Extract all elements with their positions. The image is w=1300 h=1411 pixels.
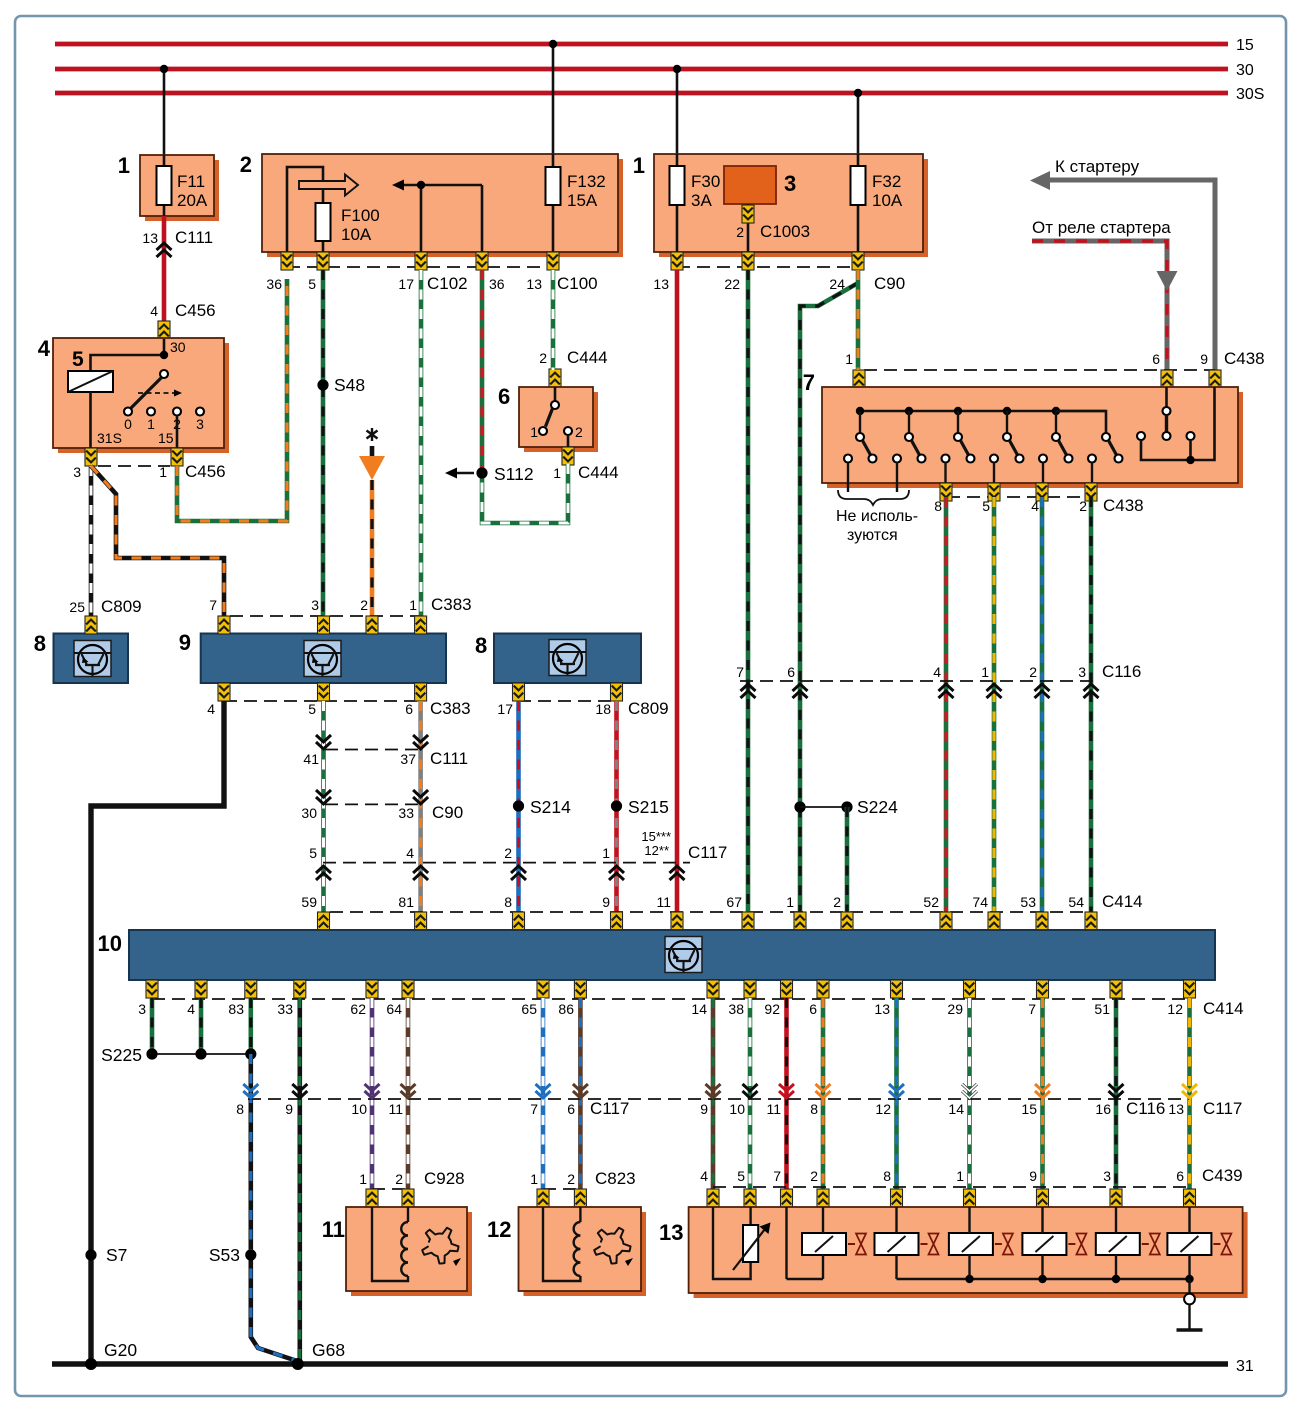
chevron bC116-16 — [1109, 1084, 1124, 1098]
svg-text:8: 8 — [504, 894, 512, 910]
svg-text:7: 7 — [803, 370, 815, 395]
connector C414b pin6 — [817, 980, 829, 998]
svg-text:1: 1 — [956, 1168, 964, 1184]
svg-text:8: 8 — [34, 631, 46, 656]
svg-text:2: 2 — [240, 152, 252, 177]
ignition switch 7 — [803, 370, 1243, 488]
svg-text:4: 4 — [207, 701, 215, 717]
svg-text:67: 67 — [726, 894, 742, 910]
node box4 pin30 — [160, 351, 168, 359]
connector C414b pin92 — [781, 980, 793, 998]
svg-text:S53: S53 — [209, 1245, 240, 1265]
connector C809 pin25 label — [69, 597, 141, 616]
svg-text:7: 7 — [773, 1168, 781, 1184]
chevron bC117-10 — [365, 1084, 380, 1098]
svg-text:1: 1 — [159, 464, 167, 480]
svg-text:2: 2 — [575, 424, 583, 440]
chevron C116-1 — [987, 684, 1002, 698]
svg-text:1: 1 — [118, 153, 130, 178]
connector C439 pin7 — [781, 1189, 793, 1207]
connector row C90 mid — [301, 803, 463, 822]
connector C102 pin36 — [281, 252, 293, 270]
svg-text:13: 13 — [1168, 1101, 1184, 1117]
ignition block 4 — [38, 336, 229, 453]
svg-text:C111: C111 — [430, 749, 468, 768]
box2 internal wire to pin17 — [420, 185, 423, 252]
connector C438 pin8 — [940, 483, 952, 501]
connector C414b pin3 — [146, 980, 158, 998]
svg-text:9: 9 — [1029, 1168, 1037, 1184]
svg-text:C456: C456 — [185, 462, 226, 481]
svg-text:1: 1 — [147, 416, 155, 432]
switch 6 — [498, 384, 598, 452]
svg-text:C90: C90 — [432, 803, 463, 822]
connector C414b pin62 — [366, 980, 378, 998]
connector C414b pin4 — [195, 980, 207, 998]
svg-text:38: 38 — [728, 1001, 744, 1017]
connector C102 pin17 — [415, 252, 427, 270]
connector C383b pin4 — [218, 683, 230, 701]
svg-text:5: 5 — [308, 701, 316, 717]
connector C439 pin2 — [817, 1189, 829, 1207]
chevron C117-4 — [413, 866, 428, 880]
chevron bC117-13 — [1182, 1084, 1197, 1098]
svg-text:К стартеру: К стартеру — [1055, 157, 1140, 176]
box7 key contact assembly — [1137, 387, 1215, 460]
connector C438 pin2 — [1085, 483, 1097, 501]
svg-text:6: 6 — [405, 701, 413, 717]
node injector bus 3 — [1112, 1275, 1120, 1283]
connector row C439 — [700, 1166, 1242, 1187]
svg-text:1: 1 — [530, 1171, 538, 1187]
fusebox 2 — [240, 152, 623, 257]
svg-text:14: 14 — [948, 1101, 964, 1117]
connector C438 pin6 — [1161, 370, 1173, 388]
connector C414 pin81 — [415, 912, 427, 930]
connector C414b pin51 — [1110, 980, 1122, 998]
chevron C111-37 — [413, 735, 428, 749]
connector row C438 bottom — [934, 496, 1143, 515]
connector C414b pin13 — [891, 980, 903, 998]
svg-text:13: 13 — [653, 276, 669, 292]
chevron bC116-11 — [779, 1084, 794, 1098]
svg-text:8: 8 — [883, 1168, 891, 1184]
svg-text:C444: C444 — [567, 348, 608, 367]
connector row C438 top — [845, 349, 1264, 370]
injector unit1 return — [787, 1207, 824, 1279]
svg-text:11: 11 — [766, 1101, 781, 1117]
chevron bC117-9 — [292, 1084, 307, 1098]
svg-text:83: 83 — [228, 1001, 244, 1017]
solenoid 12 coil circuit — [543, 1207, 580, 1281]
wire S225 to G68 (black/blue) — [251, 1054, 297, 1361]
svg-text:10: 10 — [729, 1101, 745, 1117]
svg-text:41: 41 — [303, 751, 319, 767]
svg-text:C438: C438 — [1103, 496, 1144, 515]
svg-text:2: 2 — [1029, 664, 1037, 680]
connector row C117 mid — [309, 829, 727, 863]
wire box1R-24 to ECU-1 (green/black) — [800, 283, 858, 914]
svg-text:16: 16 — [1095, 1101, 1111, 1117]
node bus15 tap F132 — [549, 40, 557, 48]
connector C383b pin5 — [318, 683, 330, 701]
svg-text:C102: C102 — [427, 274, 468, 293]
svg-text:7: 7 — [736, 664, 744, 680]
wire ECU-4 to S225 (green/black) — [199, 998, 204, 1054]
connector C383 pin2 — [366, 616, 378, 634]
wire box7-2 to ECU-54 (green/black) — [1089, 497, 1094, 914]
svg-text:S214: S214 — [530, 797, 571, 817]
connector C90 pin22 — [742, 252, 754, 270]
svg-text:18: 18 — [595, 701, 611, 717]
svg-text:92: 92 — [764, 1001, 780, 1017]
box2 internal arrow left — [392, 180, 482, 191]
connector C439 pin5 — [744, 1189, 756, 1207]
svg-text:12: 12 — [1167, 1001, 1183, 1017]
connector row C383 bottom — [207, 699, 470, 718]
wire ECU-38 (green/white) — [748, 998, 753, 1190]
svg-text:C414: C414 — [1102, 892, 1143, 911]
svg-text:4: 4 — [150, 303, 158, 319]
svg-text:4: 4 — [187, 1001, 195, 1017]
svg-text:52: 52 — [923, 894, 939, 910]
svg-text:6: 6 — [498, 384, 510, 409]
box7 switch blades — [856, 411, 1123, 463]
svg-text:3: 3 — [1078, 664, 1086, 680]
svg-text:C928: C928 — [424, 1169, 465, 1188]
connector C414b pin14 — [707, 980, 719, 998]
svg-text:F32: F32 — [872, 172, 901, 191]
svg-text:2: 2 — [395, 1171, 403, 1187]
ECU module 10 — [98, 930, 1215, 980]
bus line 15 — [55, 37, 1254, 54]
node S225 — [101, 1045, 256, 1065]
box4 coil to 31S — [91, 392, 122, 448]
svg-text:30: 30 — [301, 805, 317, 821]
svg-text:C90: C90 — [874, 274, 905, 293]
connector row C928 — [359, 1169, 464, 1189]
box2 internal wire pin36 to F100 — [287, 167, 323, 252]
module 8 right transistor icon — [549, 640, 586, 676]
svg-text:36: 36 — [266, 276, 282, 292]
connector C1003 pin 2 — [736, 204, 810, 252]
svg-text:3: 3 — [138, 1001, 146, 1017]
svg-text:1: 1 — [359, 1171, 367, 1187]
node S7 — [85, 1245, 127, 1265]
wire C456-3 to C809-25 (white/black) — [89, 466, 94, 618]
solenoid 11 cam icon — [422, 1228, 461, 1266]
svg-text:17: 17 — [398, 276, 414, 292]
chevron C90-33 — [413, 790, 428, 804]
svg-text:7: 7 — [530, 1101, 538, 1117]
chevron bC117-6 — [573, 1084, 588, 1098]
asterisk mark — [367, 428, 378, 441]
connector C100 pin13 — [547, 252, 559, 270]
chevron C116-3 — [1084, 684, 1099, 698]
svg-text:5: 5 — [309, 845, 317, 861]
injector common bus — [897, 1278, 1190, 1280]
box4 contact2 to pin15 — [158, 416, 177, 449]
svg-text:От реле стартера: От реле стартера — [1032, 218, 1171, 237]
svg-text:37: 37 — [400, 751, 416, 767]
svg-text:10: 10 — [98, 931, 122, 956]
svg-text:1: 1 — [602, 845, 610, 861]
svg-text:3: 3 — [1103, 1168, 1111, 1184]
svg-text:3: 3 — [784, 171, 796, 196]
chevron bC116-14 — [962, 1084, 977, 1098]
ECU transistor icon — [665, 937, 702, 973]
wire bus30 to fusebox1 — [163, 69, 166, 156]
svg-text:3: 3 — [311, 597, 319, 613]
svg-text:15A: 15A — [567, 191, 598, 210]
svg-text:15: 15 — [1236, 37, 1254, 54]
svg-text:14: 14 — [691, 1001, 707, 1017]
variable resistor unit — [713, 1207, 771, 1279]
wire box9-6 to ECU-81 (gray/orange) — [418, 701, 423, 914]
connector C414b pin83 — [245, 980, 257, 998]
connector C438 pin5 — [988, 483, 1000, 501]
brace not-used contacts — [836, 490, 918, 544]
chevron bC117-7 — [536, 1084, 551, 1098]
svg-text:зуются: зуются — [847, 527, 898, 544]
node box7 key contact junction — [1186, 456, 1194, 464]
wire box8R-17 to ECU-8 (blue/red) — [516, 701, 521, 914]
svg-text:4: 4 — [700, 1168, 708, 1184]
connector C90 pin24 — [852, 252, 864, 270]
connector C414b pin86 — [574, 980, 586, 998]
wire box2-36b to S112 (green/red) — [480, 270, 485, 473]
svg-text:S225: S225 — [101, 1045, 142, 1065]
svg-text:2: 2 — [810, 1168, 818, 1184]
svg-text:C383: C383 — [430, 699, 471, 718]
svg-text:11: 11 — [322, 1217, 345, 1242]
svg-text:5: 5 — [737, 1168, 745, 1184]
connector C928 pin1 — [366, 1189, 378, 1207]
connector C439 pin4 — [707, 1189, 719, 1207]
connector row C90 — [653, 267, 905, 293]
wire ECU-13 (green/blue) — [894, 998, 899, 1190]
svg-text:S215: S215 — [628, 797, 669, 817]
node bus30 tap F30 — [673, 65, 681, 73]
node S224 — [794, 797, 898, 817]
chevron C116-2 — [1035, 684, 1050, 698]
wire ECU-65 to C823-1 (blue/white) — [541, 998, 546, 1190]
connector row C117/C116 bottom — [236, 1099, 1242, 1118]
node S215 — [611, 797, 669, 817]
connector C414 pin8 — [513, 912, 525, 930]
svg-text:29: 29 — [947, 1001, 963, 1017]
svg-text:C444: C444 — [578, 463, 619, 482]
connector C809 pin18 — [611, 683, 623, 701]
connector C383 pin1 — [415, 616, 427, 634]
svg-text:C809: C809 — [101, 597, 142, 616]
node S214 — [513, 797, 571, 817]
chevron bC116-15 — [1035, 1084, 1050, 1098]
wire ECU-33 to G68 (black/green) — [297, 998, 302, 1362]
connector C414b pin64 — [402, 980, 414, 998]
connector row C102/C100 — [266, 267, 597, 293]
ground G68 — [292, 1340, 345, 1370]
box2 internal wire to pin36b — [481, 185, 484, 252]
svg-text:8: 8 — [236, 1101, 244, 1117]
connector C439 pin3 — [1110, 1189, 1122, 1207]
svg-text:6: 6 — [787, 664, 795, 680]
chevron C90-30 — [316, 790, 331, 804]
svg-text:1: 1 — [530, 424, 538, 440]
svg-text:9: 9 — [700, 1101, 708, 1117]
wire bus15 to F132 — [552, 44, 555, 155]
svg-text:S112: S112 — [494, 464, 534, 484]
connector C439 pin9 — [1037, 1189, 1049, 1207]
wire box2-17 to box9-1 (green/white) — [419, 270, 424, 618]
chevron bC116-10 — [743, 1084, 758, 1098]
svg-text:3: 3 — [196, 416, 204, 432]
connector C414 pin11 — [671, 912, 683, 930]
svg-text:2: 2 — [736, 224, 744, 240]
box4 pin30 wire — [164, 339, 186, 355]
connector C102 pin5 — [317, 252, 329, 270]
node bus30 tap F11 — [160, 65, 168, 73]
svg-text:S7: S7 — [106, 1245, 127, 1265]
module 8 left transistor icon — [74, 641, 111, 677]
svg-text:30: 30 — [1236, 62, 1254, 79]
connector C100 pin36 — [476, 252, 488, 270]
wire asterisk feed (orange/black) — [359, 446, 385, 618]
svg-text:81: 81 — [398, 894, 414, 910]
svg-text:25: 25 — [69, 599, 85, 615]
svg-text:8: 8 — [475, 633, 487, 658]
svg-text:22: 22 — [724, 276, 740, 292]
chevron C117-2 — [511, 866, 526, 880]
svg-text:12: 12 — [487, 1217, 511, 1242]
svg-text:86: 86 — [558, 1001, 574, 1017]
fusebox 1 (F11) — [118, 153, 219, 221]
injector units — [802, 1207, 1231, 1279]
wire ECU-14 (brown/green) — [711, 998, 716, 1190]
svg-text:C117: C117 — [688, 843, 727, 862]
svg-text:33: 33 — [277, 1001, 293, 1017]
svg-text:65: 65 — [521, 1001, 537, 1017]
wire ECU-12 (green/yellow) — [1187, 998, 1192, 1190]
box6 switch — [530, 387, 583, 447]
solenoid 11 coil circuit — [372, 1207, 408, 1281]
svg-text:C438: C438 — [1224, 349, 1265, 368]
connector C456 pin3 — [85, 448, 97, 466]
svg-text:15***: 15*** — [641, 829, 671, 844]
svg-text:C809: C809 — [628, 699, 669, 718]
wire bus30 to F30 — [676, 69, 679, 155]
svg-text:53: 53 — [1020, 894, 1036, 910]
svg-text:C414: C414 — [1203, 999, 1244, 1018]
module 9 — [179, 630, 446, 683]
wire ECU-7 (green/orange) — [1040, 998, 1045, 1190]
svg-text:C117: C117 — [1203, 1099, 1242, 1118]
svg-text:7: 7 — [1028, 1001, 1036, 1017]
svg-text:6: 6 — [1176, 1168, 1184, 1184]
chevron C116-6 — [793, 684, 808, 698]
wire ECU-62 to C928-1 (purple/white) — [370, 998, 375, 1190]
svg-text:11: 11 — [656, 894, 671, 910]
svg-text:59: 59 — [301, 894, 317, 910]
svg-text:S48: S48 — [334, 375, 365, 395]
chevron C117-12 — [670, 866, 685, 880]
module 9 transistor icon — [304, 641, 341, 677]
connector C414 pin74 — [988, 912, 1000, 930]
wire box7-4 to ECU-53 (green/blue) — [1040, 497, 1045, 914]
connector C439 pin1 — [964, 1189, 976, 1207]
svg-text:74: 74 — [972, 894, 988, 910]
box4 switch direction arrow — [138, 390, 182, 397]
svg-text:C439: C439 — [1202, 1166, 1243, 1185]
svg-text:15: 15 — [1021, 1101, 1037, 1117]
svg-text:C117: C117 — [590, 1099, 629, 1118]
node box2 junction — [417, 181, 425, 189]
solenoid 12 cam icon — [594, 1228, 633, 1266]
svg-text:1: 1 — [633, 153, 645, 178]
box7 contact stubs — [844, 455, 1096, 493]
wire S224 to ECU-2 (green/black) — [845, 807, 850, 914]
connector C809 pin17 — [513, 683, 525, 701]
wire from starter relay (gray/red) — [1032, 218, 1178, 370]
chevron bC116-12 — [889, 1084, 904, 1098]
wire box9-5 to ECU-59 (green/white) — [321, 701, 326, 914]
svg-text:4: 4 — [406, 845, 414, 861]
connector C111 pin 13 crossing — [142, 228, 213, 257]
svg-text:13: 13 — [142, 230, 158, 246]
fuse F132 15A — [546, 154, 606, 252]
svg-text:15: 15 — [158, 430, 174, 446]
connector C414b pin29 — [964, 980, 976, 998]
svg-text:30S: 30S — [1236, 86, 1264, 103]
node injector bus 1 — [965, 1275, 973, 1283]
wire ECU-51 (green/black) — [1114, 998, 1119, 1190]
svg-text:C383: C383 — [431, 595, 472, 614]
svg-text:2: 2 — [833, 894, 841, 910]
module 8 right — [475, 633, 641, 683]
fuse F100 10A — [316, 203, 380, 252]
fuse F32 10A — [851, 154, 903, 252]
svg-text:8: 8 — [810, 1101, 818, 1117]
svg-text:4: 4 — [38, 336, 51, 361]
svg-text:12: 12 — [875, 1101, 891, 1117]
svg-text:62: 62 — [350, 1001, 366, 1017]
wire box2-5 to box9-3 (green/black) — [321, 270, 326, 618]
chevron C116-4 — [939, 684, 954, 698]
connector C444 pin2 — [539, 348, 607, 387]
svg-text:10: 10 — [351, 1101, 367, 1117]
svg-text:C116: C116 — [1126, 1099, 1165, 1118]
wire box1R-22 to ECU-67 (green/black) — [746, 270, 751, 914]
svg-text:C111: C111 — [175, 228, 213, 247]
fuse F11 wire — [163, 155, 166, 216]
wire to starter (gray) — [1030, 157, 1215, 370]
svg-text:F11: F11 — [177, 172, 205, 191]
connector C438 pin4 — [1036, 483, 1048, 501]
connector C414 pin52 — [940, 912, 952, 930]
svg-text:C823: C823 — [595, 1169, 636, 1188]
wire box9-4 to ground (black) — [91, 701, 224, 1364]
svg-text:2: 2 — [504, 845, 512, 861]
box7 internal bus — [860, 410, 1106, 413]
svg-text:1: 1 — [553, 465, 561, 481]
connector C438 pin9 — [1209, 370, 1221, 388]
svg-text:51: 51 — [1094, 1001, 1110, 1017]
svg-text:5: 5 — [72, 348, 84, 371]
svg-text:C1003: C1003 — [760, 222, 810, 241]
wire box7-8 to ECU-52 (green/red) — [944, 497, 949, 914]
connector C414b pin65 — [537, 980, 549, 998]
chevron bC117-11 — [401, 1084, 416, 1098]
